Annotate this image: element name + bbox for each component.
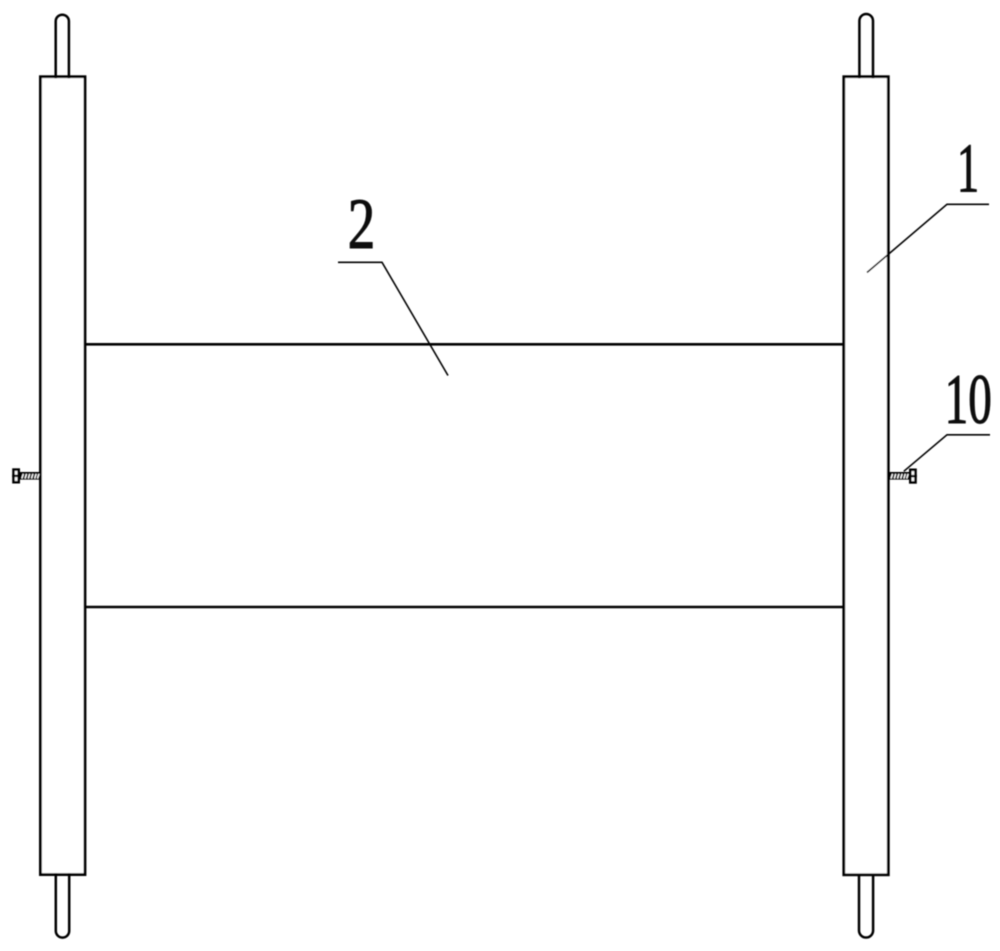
- leader line for label 1: [867, 204, 989, 272]
- svg-text:10: 10: [945, 360, 992, 439]
- right side plate: [844, 77, 889, 875]
- svg-text:2: 2: [348, 184, 376, 264]
- left side plate: [40, 77, 85, 875]
- top-left pin: [56, 15, 69, 78]
- membrane panel top edge: [85, 343, 844, 346]
- left bolt shank (threaded): [20, 472, 40, 480]
- leader line for label 2: [338, 262, 448, 375]
- right bolt shank (threaded): [888, 472, 909, 480]
- left bolt head: [12, 470, 20, 483]
- membrane panel bottom edge: [85, 606, 844, 609]
- leader line for label 10: [904, 435, 990, 472]
- top-right pin: [859, 14, 873, 78]
- bottom-left pin: [56, 873, 69, 937]
- bottom-right pin: [859, 874, 873, 938]
- right bolt head: [909, 470, 917, 483]
- svg-text:1: 1: [957, 130, 979, 207]
